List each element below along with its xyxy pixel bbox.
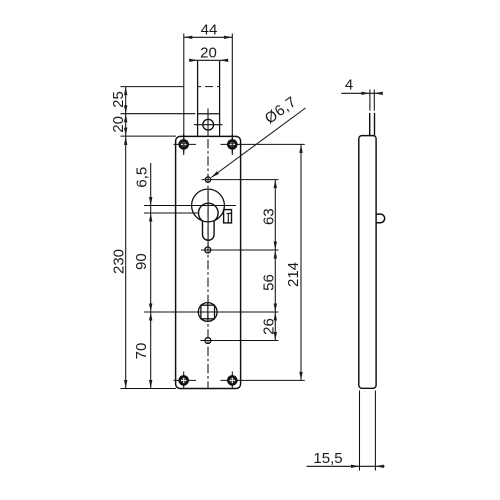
large circle horizontal centerline bbox=[144, 205, 236, 207]
dimension line 15,5 bbox=[307, 465, 385, 467]
15,5 extension lines below side view bbox=[360, 391, 376, 471]
solid centerline segment through cylinder keyhole bbox=[207, 190, 209, 246]
svg-text:70: 70 bbox=[133, 343, 150, 360]
screw hole bottom-left: centerline ticks bbox=[174, 372, 197, 389]
svg-text:6,5: 6,5 bbox=[134, 167, 151, 188]
extension line left at plate bottom bbox=[121, 388, 177, 390]
svg-text:90: 90 bbox=[133, 253, 150, 270]
roller block top edge bbox=[198, 113, 220, 115]
side view rod extension lines (4 dim) bbox=[370, 90, 374, 111]
screw hole bottom-left: head symbol bbox=[178, 375, 189, 386]
follower square spindle hole bbox=[201, 305, 215, 319]
arrowheads right inner dimension bbox=[274, 180, 277, 341]
extension line left at plate top bbox=[121, 135, 177, 137]
small circle below follower bbox=[205, 338, 211, 344]
svg-text:230: 230 bbox=[110, 249, 127, 274]
arrowheads 20 top bbox=[189, 59, 228, 62]
roller circle in block bbox=[203, 119, 214, 130]
svg-text:20: 20 bbox=[200, 44, 217, 61]
screw hole top-left: head symbol bbox=[178, 139, 189, 150]
solid centerline segment through follower bbox=[207, 303, 209, 323]
arrowheads left inner dimension bbox=[149, 197, 152, 389]
screw hole top-right: head symbol bbox=[227, 139, 238, 150]
hidden dashed line across rod (25 reference) bbox=[198, 86, 220, 88]
screw hole top-left: centerline ticks bbox=[174, 134, 197, 155]
roller circle horizontal centerline bbox=[194, 124, 223, 126]
follower circle bbox=[198, 303, 217, 322]
lock case plate outline (front view) bbox=[176, 136, 241, 388]
dimension line 44 bbox=[184, 36, 233, 38]
hole diameter 6.7 bbox=[205, 177, 210, 182]
cylinder center extension line (6,5) bbox=[144, 212, 199, 214]
svg-text:214: 214 bbox=[285, 262, 302, 287]
dimension line 214 (right outer) bbox=[300, 144, 302, 380]
screw hole bottom-right: head symbol bbox=[227, 375, 238, 386]
arrowheads 4 bbox=[361, 92, 382, 95]
locking tab right of cylinder bbox=[224, 210, 232, 223]
euro profile cylinder keyhole bbox=[198, 203, 218, 240]
svg-text:4: 4 bbox=[345, 77, 353, 94]
push rod piece 20 wide (front view) bbox=[198, 61, 220, 136]
dimension line 20 (top) bbox=[189, 59, 228, 61]
extension line left at y=86.6 bbox=[121, 86, 185, 88]
side view plate outline bbox=[359, 136, 376, 389]
arrowheads 15,5 bbox=[351, 465, 384, 468]
extension line at small circle (26 bottom) bbox=[201, 340, 279, 342]
svg-text:63: 63 bbox=[260, 208, 277, 225]
arrowheads 214 bbox=[299, 144, 302, 380]
svg-text:56: 56 bbox=[260, 274, 277, 291]
dimension line 25/20/230 (left outer) bbox=[125, 87, 127, 389]
extension line left at block top bbox=[121, 113, 196, 115]
svg-text:15,5: 15,5 bbox=[313, 450, 342, 467]
screw hole top-right: centerline ticks bbox=[221, 134, 305, 155]
svg-text:25: 25 bbox=[110, 91, 127, 108]
hole 6.7 horizontal extension line to 63 dimension bbox=[202, 179, 279, 181]
extension line at keyhole bottom (63/56 boundary) bbox=[201, 249, 279, 251]
side view push rod bbox=[370, 113, 375, 136]
vertical dashed centerline of front view bbox=[207, 139, 209, 388]
follower horizontal centerline bbox=[144, 311, 279, 313]
dimension line 4 bbox=[341, 92, 382, 94]
solid centerline segment through roller block bbox=[207, 109, 209, 137]
arrowheads 44 bbox=[184, 36, 233, 39]
small circle below keyhole bbox=[205, 247, 211, 253]
svg-text:26: 26 bbox=[260, 318, 277, 335]
side view tab bump bbox=[376, 214, 385, 223]
svg-text:20: 20 bbox=[110, 116, 127, 133]
dimension line 63/56/26 (right inner) bbox=[274, 180, 276, 341]
arrowheads left outer dimension bbox=[124, 87, 127, 389]
dimension line 6,5/90/70 (left inner) bbox=[150, 163, 152, 389]
screw hole bottom-right: centerline ticks bbox=[221, 372, 305, 389]
leader arrowhead bbox=[211, 171, 219, 177]
cylinder large circle bbox=[192, 189, 225, 222]
svg-text:44: 44 bbox=[201, 22, 218, 39]
leader line for hole diameter 6,7 bbox=[211, 108, 305, 178]
dimension 44: extension lines through top screws bbox=[184, 34, 233, 153]
